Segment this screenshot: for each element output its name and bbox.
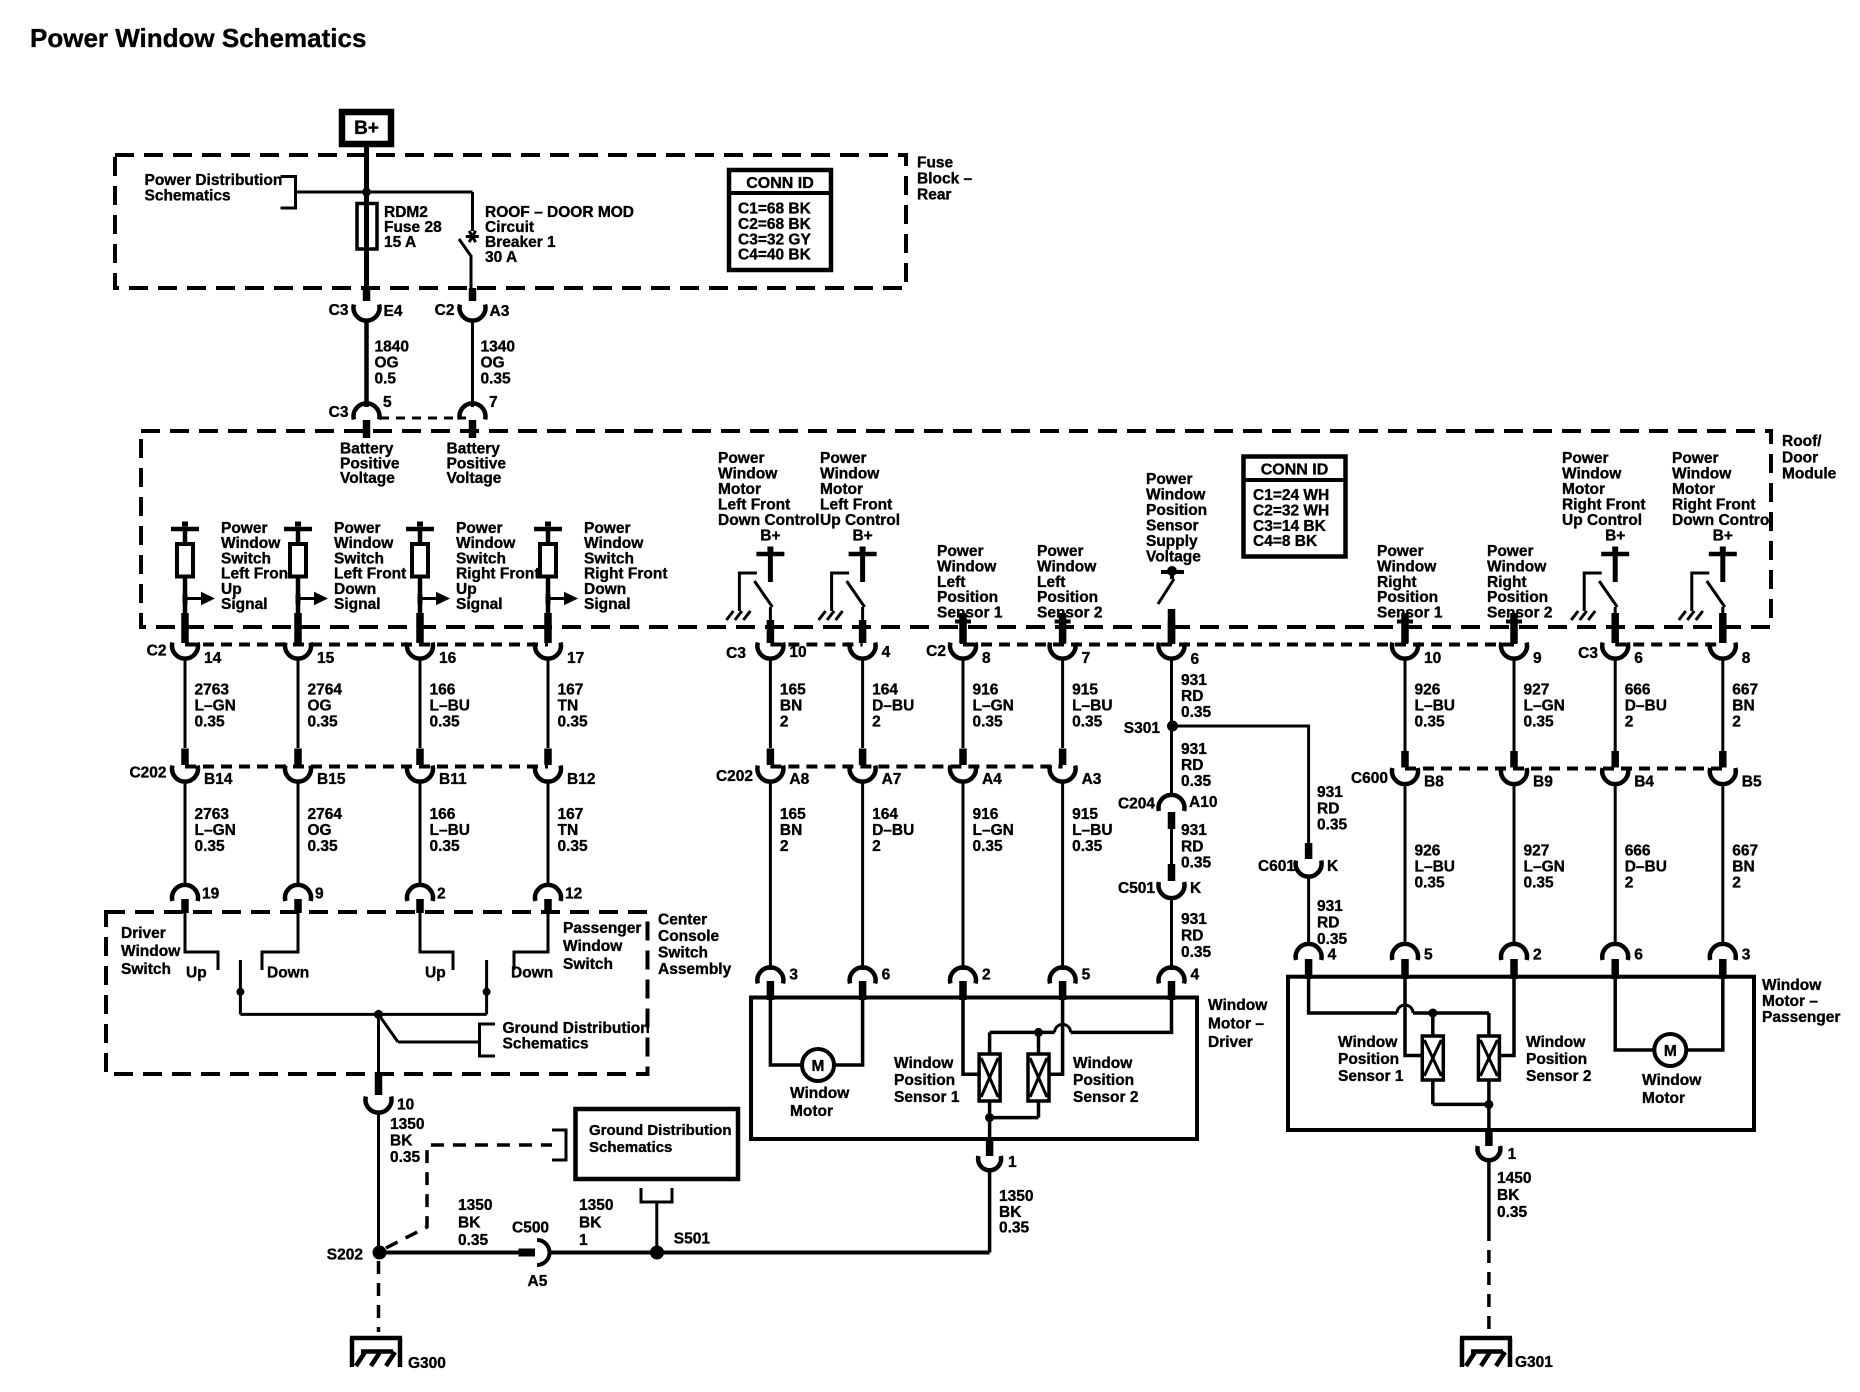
svg-text:0.35: 0.35 bbox=[1181, 855, 1212, 872]
connector row C pin 2 bbox=[407, 885, 446, 913]
svg-text:A5: A5 bbox=[528, 1273, 548, 1290]
supply voltage switch bbox=[1158, 566, 1184, 644]
svg-text:167: 167 bbox=[558, 806, 584, 823]
svg-text:C501: C501 bbox=[1118, 880, 1155, 897]
svg-text:Schematics: Schematics bbox=[589, 1139, 672, 1156]
label window position sensor 2 driver bbox=[1073, 1055, 1138, 1106]
connector C204 pin A10 bbox=[1118, 794, 1218, 829]
svg-text:D–BU: D–BU bbox=[1625, 859, 1667, 876]
svg-text:7: 7 bbox=[1082, 650, 1091, 667]
svg-text:1340: 1340 bbox=[481, 339, 515, 356]
svg-text:Window: Window bbox=[1146, 487, 1206, 504]
svg-text:Switch: Switch bbox=[658, 945, 708, 962]
connector pin 7 bbox=[460, 394, 498, 438]
svg-text:Power: Power bbox=[718, 450, 765, 467]
svg-text:Rear: Rear bbox=[917, 187, 951, 204]
ground G300 bbox=[350, 1338, 446, 1372]
svg-text:B5: B5 bbox=[1742, 774, 1762, 791]
svg-text:0.35: 0.35 bbox=[1317, 931, 1348, 948]
svg-text:926: 926 bbox=[1415, 843, 1441, 860]
svg-text:Sensor 1: Sensor 1 bbox=[1338, 1068, 1404, 1085]
bracket ground distribution ref 2 bbox=[552, 1130, 566, 1160]
svg-text:927: 927 bbox=[1524, 682, 1550, 699]
svg-text:BN: BN bbox=[1732, 698, 1754, 715]
connector passenger-box pin 5 bbox=[1392, 944, 1433, 979]
svg-text:A8: A8 bbox=[789, 771, 809, 788]
svg-text:Sensor 2: Sensor 2 bbox=[1037, 605, 1102, 622]
svg-text:1: 1 bbox=[579, 1232, 588, 1249]
connector row A pin 8 bbox=[1710, 613, 1751, 667]
driver motor left front down control bbox=[718, 450, 820, 620]
svg-text:K: K bbox=[1327, 858, 1339, 875]
connector row B pin B8 bbox=[1392, 751, 1444, 791]
svg-text:M: M bbox=[1664, 1043, 1677, 1060]
svg-text:0.5: 0.5 bbox=[375, 371, 397, 388]
svg-text:C204: C204 bbox=[1118, 796, 1155, 813]
driver motor left front up control bbox=[819, 450, 900, 620]
svg-text:667: 667 bbox=[1732, 682, 1758, 699]
wire 166 L&#8211;BU 0.35 upper bbox=[420, 659, 470, 748]
switch blade driver bbox=[236, 960, 244, 1014]
svg-text:5: 5 bbox=[1082, 967, 1091, 984]
svg-text:667: 667 bbox=[1732, 843, 1758, 860]
svg-text:Right Front: Right Front bbox=[1562, 497, 1646, 514]
svg-text:BK: BK bbox=[579, 1215, 602, 1232]
svg-text:17: 17 bbox=[567, 650, 584, 667]
svg-text:Window: Window bbox=[121, 943, 181, 960]
svg-text:0.35: 0.35 bbox=[308, 714, 339, 731]
dashed wire to G301 bbox=[1487, 1228, 1491, 1332]
svg-text:0.35: 0.35 bbox=[1415, 714, 1446, 731]
svg-text:915: 915 bbox=[1072, 806, 1098, 823]
svg-text:2: 2 bbox=[1625, 875, 1634, 892]
wire 916 L&#8211;GN 0.35 upper bbox=[963, 659, 1014, 748]
svg-text:C4=8 BK: C4=8 BK bbox=[1253, 533, 1318, 550]
wire 164 D&#8211;BU 2 upper bbox=[863, 659, 915, 748]
dotted connector line row B bbox=[185, 767, 1723, 769]
svg-text:BK: BK bbox=[999, 1204, 1022, 1221]
svg-text:Ground Distribution: Ground Distribution bbox=[503, 1020, 650, 1037]
svg-text:Window: Window bbox=[1073, 1055, 1133, 1072]
svg-text:12: 12 bbox=[565, 886, 582, 903]
svg-text:931: 931 bbox=[1181, 911, 1207, 928]
label power window left position sensor 1 bbox=[937, 543, 1003, 622]
svg-text:Schematics: Schematics bbox=[145, 188, 231, 205]
wire 165 BN 2 upper bbox=[770, 659, 806, 748]
wire pin2 to sensor2 passenger bbox=[1499, 977, 1515, 1056]
splice S202 bbox=[327, 1246, 387, 1264]
connector passenger-box pin 3 bbox=[1710, 944, 1751, 979]
svg-text:0.35: 0.35 bbox=[458, 1232, 489, 1249]
svg-text:16: 16 bbox=[439, 650, 457, 667]
svg-text:2763: 2763 bbox=[195, 682, 230, 699]
connector row A pin 10 bbox=[757, 620, 806, 661]
svg-text:0.35: 0.35 bbox=[1181, 773, 1212, 790]
svg-text:2763: 2763 bbox=[195, 806, 230, 823]
svg-text:M: M bbox=[812, 1058, 825, 1075]
roof/door module box bbox=[141, 431, 1771, 627]
bracket power distribution bbox=[281, 177, 296, 209]
svg-text:RD: RD bbox=[1317, 915, 1339, 932]
wire 667 BN 2 lower bbox=[1723, 783, 1758, 947]
svg-text:916: 916 bbox=[973, 806, 999, 823]
svg-text:1: 1 bbox=[1508, 1146, 1517, 1163]
label window position sensor 1 driver bbox=[894, 1055, 960, 1106]
wire pin4 to sensors top bbox=[990, 998, 1172, 1054]
svg-text:0.35: 0.35 bbox=[558, 838, 589, 855]
svg-text:RD: RD bbox=[1181, 688, 1203, 705]
wire power distribution to breaker bbox=[296, 191, 473, 194]
svg-text:Window: Window bbox=[1672, 466, 1732, 483]
label C202 row B mid bbox=[716, 768, 753, 785]
svg-text:Left Front: Left Front bbox=[820, 497, 892, 514]
switch left front up signal bbox=[171, 520, 293, 620]
svg-text:Down Control: Down Control bbox=[1672, 512, 1774, 529]
wire to ground distribution ref bbox=[379, 1014, 480, 1042]
CONN ID table fuse block bbox=[729, 170, 831, 270]
svg-text:2764: 2764 bbox=[308, 682, 343, 699]
label window position sensor 1 passenger bbox=[1338, 1034, 1404, 1085]
svg-text:Window: Window bbox=[1208, 997, 1268, 1014]
label power window right position sensor 2 bbox=[1487, 543, 1552, 622]
dashed jumper C3 bbox=[380, 417, 466, 420]
svg-text:L–GN: L–GN bbox=[195, 698, 236, 715]
svg-text:1840: 1840 bbox=[375, 339, 409, 356]
svg-text:RD: RD bbox=[1181, 838, 1203, 855]
svg-text:0.35: 0.35 bbox=[999, 1220, 1030, 1237]
svg-text:Signal: Signal bbox=[456, 596, 503, 613]
svg-text:Driver: Driver bbox=[1208, 1034, 1253, 1051]
wire 927 L&#8211;GN 0.35 lower bbox=[1514, 783, 1565, 947]
switch right front up signal bbox=[406, 520, 540, 620]
wire 167 TN 0.35 lower bbox=[548, 780, 588, 887]
terminal left position sensor 1 bbox=[955, 622, 971, 645]
svg-text:Power Distribution: Power Distribution bbox=[145, 172, 283, 189]
junction sensor1 top passenger bbox=[1428, 1009, 1437, 1037]
connector row B pin B12 bbox=[535, 749, 595, 789]
svg-text:15: 15 bbox=[317, 650, 335, 667]
connector row A pin 10 bbox=[1392, 613, 1441, 667]
svg-text:C3: C3 bbox=[329, 302, 349, 319]
svg-text:Window: Window bbox=[790, 1085, 850, 1102]
connector row B pin A3 bbox=[1050, 749, 1102, 789]
svg-text:10: 10 bbox=[789, 644, 806, 661]
label battery positive voltage 2 bbox=[447, 441, 507, 488]
svg-text:8: 8 bbox=[982, 650, 991, 667]
svg-text:Sensor: Sensor bbox=[1146, 518, 1199, 535]
svg-text:926: 926 bbox=[1415, 682, 1441, 699]
svg-text:2: 2 bbox=[982, 967, 991, 984]
svg-text:931: 931 bbox=[1181, 822, 1207, 839]
connector row B pin B4 bbox=[1602, 751, 1654, 791]
label C3 row A right bbox=[1578, 645, 1598, 662]
wire sensors bottom driver bbox=[985, 1101, 1038, 1139]
svg-text:A4: A4 bbox=[982, 771, 1002, 788]
svg-text:Fuse: Fuse bbox=[917, 155, 954, 172]
svg-text:0.35: 0.35 bbox=[308, 838, 339, 855]
svg-text:6: 6 bbox=[1191, 651, 1200, 668]
svg-text:Sensor 2: Sensor 2 bbox=[1526, 1068, 1591, 1085]
connector C500 pin A5 bbox=[512, 1220, 550, 1291]
ground distribution schematics box bbox=[576, 1109, 739, 1179]
svg-text:14: 14 bbox=[204, 650, 222, 667]
svg-text:6: 6 bbox=[1634, 947, 1643, 964]
svg-text:L–BU: L–BU bbox=[1415, 859, 1455, 876]
driver motor right front down control bbox=[1672, 450, 1774, 620]
window motor passenger box bbox=[1288, 977, 1754, 1130]
contact down passenger bbox=[511, 913, 553, 982]
connector passenger-box pin 6 bbox=[1602, 944, 1643, 979]
switch right front down signal bbox=[534, 520, 668, 620]
label power window right position sensor 1 bbox=[1377, 543, 1443, 622]
svg-text:Motor –: Motor – bbox=[1762, 993, 1818, 1010]
svg-text:Sensor 2: Sensor 2 bbox=[1073, 1089, 1138, 1106]
contact up driver bbox=[185, 913, 218, 982]
svg-text:Left Front: Left Front bbox=[718, 497, 790, 514]
svg-text:Right Front: Right Front bbox=[1672, 497, 1756, 514]
svg-text:Voltage: Voltage bbox=[1146, 549, 1201, 566]
label C3 row A mid bbox=[726, 645, 746, 662]
svg-text:916: 916 bbox=[973, 682, 999, 699]
svg-text:3: 3 bbox=[789, 967, 798, 984]
label Fuse Block - Rear bbox=[917, 155, 973, 204]
wire 1340 OG 0.35 bbox=[473, 319, 515, 407]
svg-text:B11: B11 bbox=[439, 771, 467, 788]
svg-text:15 A: 15 A bbox=[384, 234, 416, 251]
wire pin5 to sensor1 passenger bbox=[1405, 977, 1423, 1056]
svg-text:Window: Window bbox=[1338, 1034, 1398, 1051]
junction switch common bbox=[374, 1010, 383, 1019]
svg-text:B+: B+ bbox=[852, 528, 872, 545]
ground G301 bbox=[1460, 1338, 1553, 1371]
circuit breaker ROOF-DOOR MOD 30A bbox=[459, 192, 634, 288]
svg-text:B+: B+ bbox=[1713, 528, 1733, 545]
svg-text:Motor: Motor bbox=[1672, 481, 1715, 498]
svg-text:1350: 1350 bbox=[579, 1197, 613, 1214]
svg-text:OG: OG bbox=[375, 355, 399, 372]
svg-text:1350: 1350 bbox=[999, 1188, 1033, 1205]
svg-text:4: 4 bbox=[1328, 947, 1337, 964]
svg-text:L–BU: L–BU bbox=[1072, 822, 1112, 839]
svg-text:L–BU: L–BU bbox=[1072, 698, 1112, 715]
wire 915 L&#8211;BU 0.35 lower bbox=[1063, 780, 1113, 970]
bracket ground distribution ref bbox=[480, 1024, 496, 1056]
svg-text:0.35: 0.35 bbox=[195, 714, 226, 731]
svg-text:Power: Power bbox=[1146, 471, 1193, 488]
svg-text:C3: C3 bbox=[726, 645, 746, 662]
bracket below ground distribution box bbox=[641, 1188, 672, 1247]
svg-text:0.35: 0.35 bbox=[1181, 704, 1212, 721]
svg-text:B14: B14 bbox=[204, 771, 233, 788]
svg-text:2: 2 bbox=[1625, 714, 1634, 731]
svg-text:B8: B8 bbox=[1424, 774, 1444, 791]
svg-text:L–GN: L–GN bbox=[973, 698, 1014, 715]
svg-text:B9: B9 bbox=[1533, 774, 1553, 791]
svg-text:Position: Position bbox=[1526, 1051, 1587, 1068]
svg-text:Passenger: Passenger bbox=[563, 920, 641, 937]
label Window Motor - Driver bbox=[1208, 997, 1268, 1051]
svg-text:Schematics: Schematics bbox=[503, 1036, 589, 1053]
svg-text:Power Window Schematics: Power Window Schematics bbox=[30, 23, 366, 53]
svg-text:Window: Window bbox=[820, 466, 880, 483]
dashed wire S202 to G300 bbox=[377, 1261, 381, 1332]
position sensor 2 driver bbox=[1028, 1054, 1049, 1101]
svg-text:C2: C2 bbox=[435, 302, 455, 319]
connector row B pin B15 bbox=[285, 749, 346, 789]
wire B+ to fuse block bbox=[364, 147, 369, 203]
wire 927 L&#8211;GN 0.35 upper bbox=[1514, 659, 1565, 751]
svg-text:BN: BN bbox=[1732, 859, 1754, 876]
svg-text:B15: B15 bbox=[317, 771, 346, 788]
svg-text:0.35: 0.35 bbox=[481, 371, 512, 388]
wire 2763 L&#8211;GN 0.35 upper bbox=[185, 659, 236, 748]
svg-text:0.35: 0.35 bbox=[1415, 875, 1446, 892]
svg-text:2: 2 bbox=[780, 838, 789, 855]
svg-text:BN: BN bbox=[780, 698, 802, 715]
svg-text:C600: C600 bbox=[1351, 770, 1388, 787]
svg-text:30 A: 30 A bbox=[485, 249, 517, 266]
svg-text:E4: E4 bbox=[384, 303, 403, 320]
connector row B pin B11 bbox=[407, 749, 467, 789]
svg-text:Up Control: Up Control bbox=[820, 512, 900, 529]
wire pin3 to motor bbox=[770, 998, 802, 1065]
svg-text:L–BU: L–BU bbox=[1415, 698, 1455, 715]
svg-text:Ground Distribution: Ground Distribution bbox=[589, 1122, 731, 1139]
svg-text:8: 8 bbox=[1742, 650, 1751, 667]
svg-text:Motor: Motor bbox=[820, 481, 863, 498]
wire pin6 to motor passenger bbox=[1615, 977, 1654, 1050]
svg-text:927: 927 bbox=[1524, 843, 1550, 860]
svg-text:2: 2 bbox=[1533, 947, 1542, 964]
svg-text:L–BU: L–BU bbox=[430, 822, 470, 839]
svg-text:164: 164 bbox=[872, 806, 898, 823]
svg-text:C601: C601 bbox=[1258, 858, 1295, 875]
wire 1840 OG 0.5 bbox=[367, 319, 409, 407]
svg-text:A10: A10 bbox=[1189, 794, 1217, 811]
svg-text:Voltage: Voltage bbox=[447, 470, 502, 487]
wire S301 branch to C601 bbox=[1173, 726, 1348, 843]
connector row A pin 17 bbox=[535, 613, 584, 667]
dotted connector line row A bbox=[185, 643, 1723, 647]
wire 167 TN 0.35 upper bbox=[548, 659, 588, 748]
svg-text:0.35: 0.35 bbox=[430, 714, 461, 731]
svg-text:4: 4 bbox=[882, 644, 891, 661]
svg-text:Window: Window bbox=[718, 466, 778, 483]
svg-text:Window: Window bbox=[1642, 1072, 1702, 1089]
svg-text:2: 2 bbox=[1732, 714, 1741, 731]
svg-text:0.35: 0.35 bbox=[1072, 838, 1103, 855]
svg-text:CONN ID: CONN ID bbox=[746, 175, 814, 192]
label power window position sensor supply voltage bbox=[1146, 471, 1207, 566]
svg-text:B12: B12 bbox=[567, 771, 595, 788]
connector C601 pin K bbox=[1258, 843, 1339, 877]
connector row B pin B14 bbox=[172, 749, 233, 789]
svg-text:2: 2 bbox=[1732, 875, 1741, 892]
svg-text:Signal: Signal bbox=[221, 596, 268, 613]
svg-text:0.35: 0.35 bbox=[973, 714, 1004, 731]
svg-text:0.35: 0.35 bbox=[195, 838, 226, 855]
svg-text:1350: 1350 bbox=[390, 1116, 424, 1133]
wire 926 L&#8211;BU 0.35 upper bbox=[1405, 659, 1455, 751]
svg-text:931: 931 bbox=[1317, 898, 1343, 915]
svg-text:0.35: 0.35 bbox=[1317, 817, 1348, 834]
wire 666 D&#8211;BU 2 upper bbox=[1615, 659, 1667, 751]
wire pin2 to sensor1 bbox=[963, 998, 980, 1074]
svg-text:Sensor 1: Sensor 1 bbox=[894, 1089, 960, 1106]
svg-text:L–BU: L–BU bbox=[430, 698, 470, 715]
svg-text:10: 10 bbox=[397, 1097, 414, 1114]
connector row B pin B5 bbox=[1710, 751, 1762, 791]
svg-text:166: 166 bbox=[430, 682, 456, 699]
svg-text:RD: RD bbox=[1181, 757, 1203, 774]
svg-text:Power: Power bbox=[1562, 450, 1609, 467]
wire 2763 L&#8211;GN 0.35 lower bbox=[185, 780, 236, 887]
svg-text:D–BU: D–BU bbox=[872, 698, 914, 715]
splice S501 bbox=[650, 1231, 710, 1260]
switch left front down signal bbox=[284, 520, 406, 620]
connector row B pin A7 bbox=[850, 749, 902, 789]
connector driver-box pin 5 bbox=[1050, 967, 1091, 1001]
label window position sensor 2 passenger bbox=[1526, 1034, 1591, 1085]
svg-text:BK: BK bbox=[458, 1215, 481, 1232]
connector C3 pin E4 bbox=[329, 288, 403, 321]
svg-text:Motor: Motor bbox=[718, 481, 761, 498]
connector driver pin 1 bbox=[978, 1139, 1017, 1171]
switch common bus bbox=[240, 1013, 486, 1016]
contact up passenger bbox=[420, 913, 453, 982]
svg-text:Block –: Block – bbox=[917, 171, 973, 188]
svg-text:Center: Center bbox=[658, 912, 707, 929]
wire 166 L&#8211;BU 0.35 lower bbox=[420, 780, 470, 887]
svg-text:666: 666 bbox=[1625, 682, 1651, 699]
fuse RDM2 Fuse 28 15A bbox=[357, 203, 442, 288]
svg-text:Signal: Signal bbox=[334, 596, 381, 613]
wire 931 RD 0.35 C204 to C501 bbox=[1172, 822, 1212, 872]
svg-text:931: 931 bbox=[1317, 784, 1343, 801]
svg-text:Switch: Switch bbox=[121, 961, 171, 978]
svg-text:915: 915 bbox=[1072, 682, 1098, 699]
svg-text:Motor –: Motor – bbox=[1208, 1016, 1264, 1033]
svg-text:0.35: 0.35 bbox=[1524, 714, 1555, 731]
wire 916 L&#8211;GN 0.35 lower bbox=[963, 780, 1014, 970]
svg-text:0.35: 0.35 bbox=[1181, 944, 1212, 961]
svg-text:C3: C3 bbox=[329, 404, 349, 421]
svg-text:10: 10 bbox=[1424, 650, 1441, 667]
label Power Distribution Schematics bbox=[145, 172, 283, 205]
wire switch common to pin 10 bbox=[377, 1014, 380, 1090]
svg-text:Passenger: Passenger bbox=[1762, 1009, 1840, 1026]
svg-text:Up: Up bbox=[425, 965, 446, 982]
svg-text:S301: S301 bbox=[1124, 720, 1161, 737]
wire 164 D&#8211;BU 2 lower bbox=[863, 780, 915, 970]
svg-text:2: 2 bbox=[780, 714, 789, 731]
wire 165 BN 2 lower bbox=[770, 780, 806, 970]
connector pin 10 bbox=[366, 1072, 415, 1114]
wire 1450 BK 0.35 passenger bbox=[1489, 1161, 1532, 1229]
svg-text:BK: BK bbox=[390, 1133, 413, 1150]
CONN ID table module bbox=[1244, 457, 1346, 557]
connector row C pin 9 bbox=[285, 885, 324, 913]
switch blade passenger bbox=[483, 960, 491, 1014]
svg-text:B+: B+ bbox=[1605, 528, 1625, 545]
svg-text:B+: B+ bbox=[354, 118, 379, 139]
connector C3 pin 5 bbox=[329, 394, 392, 438]
wire pin6 to motor bbox=[834, 998, 863, 1065]
label ground distribution schematics inner bbox=[503, 1020, 650, 1053]
wire 931 RD 0.35 C601 to pin4 bbox=[1309, 876, 1348, 949]
wire 931 RD 0.35 S301 to C204 bbox=[1172, 726, 1212, 797]
svg-text:S501: S501 bbox=[674, 1231, 711, 1248]
